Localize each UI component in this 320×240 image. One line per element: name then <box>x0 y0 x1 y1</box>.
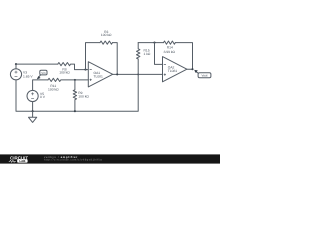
svg-text:1 kΩ: 1 kΩ <box>144 52 151 56</box>
resistor R11 <box>48 78 61 81</box>
op-amp OA2 <box>163 57 187 82</box>
wire V3 bottom and ground rail <box>16 74 138 111</box>
wire R15 top to R14 rail <box>138 42 163 44</box>
resistor R3 <box>100 41 113 44</box>
ground <box>32 111 34 117</box>
voltage source V5 <box>27 90 38 101</box>
wire R14 right down to OA2 output <box>175 43 192 70</box>
svg-text:100 kΩ: 100 kΩ <box>101 33 112 37</box>
svg-text:Vout: Vout <box>201 74 207 78</box>
resistor R15 vertical <box>137 43 140 75</box>
voltage source V3 <box>10 69 21 80</box>
svg-text:100 kΩ: 100 kΩ <box>78 95 89 99</box>
node OA1 output / R3 <box>116 73 118 75</box>
wire V3 top stub <box>15 64 17 69</box>
svg-text:8.99 kΩ: 8.99 kΩ <box>164 50 176 54</box>
svg-text:TL081: TL081 <box>168 69 178 73</box>
op-amp OA1 <box>88 62 112 87</box>
svg-text:1.65 V: 1.65 V <box>23 74 33 78</box>
wire OA1 output rail <box>113 73 163 75</box>
Vout flag <box>195 71 198 73</box>
svg-text:Vin: Vin <box>41 71 46 75</box>
node R3 feedback to minus input <box>84 69 86 71</box>
wire OA2 output <box>187 68 193 70</box>
svg-text:R14: R14 <box>167 46 173 50</box>
node OA2 output <box>191 68 193 70</box>
resistor R8 <box>58 62 71 65</box>
svg-text:http://circuitlab.com/c/v68qv8: http://circuitlab.com/c/v68qv81b95a <box>44 159 102 162</box>
wire R3 right vertical to output <box>113 43 118 75</box>
svg-text:100 kΩ: 100 kΩ <box>48 87 59 91</box>
logo LAB tag <box>17 159 27 162</box>
node R9 bottom <box>74 110 76 112</box>
wire V5 bottom stub <box>32 102 34 112</box>
node V5 ground junction <box>32 110 34 112</box>
svg-text:100 kΩ: 100 kΩ <box>59 70 70 74</box>
node R15 bottom junction <box>137 73 139 75</box>
wire top rail to R8 <box>16 63 58 65</box>
wire OA2 minus feedback branch <box>155 43 163 65</box>
Vin flag <box>38 75 40 78</box>
resistor R14 <box>164 41 176 44</box>
labels <box>23 30 208 99</box>
svg-text:0 V: 0 V <box>40 95 46 99</box>
wire R8 right corner down to minus rail <box>71 64 88 70</box>
logo zigzag <box>9 160 16 162</box>
svg-text:LAB: LAB <box>19 159 26 163</box>
wire R11 to plus input <box>61 79 88 81</box>
wire R3 feedback left vertical <box>86 43 101 70</box>
node R14 left / OA2 feedback <box>153 42 155 44</box>
resistor R9 vertical <box>73 80 76 111</box>
node R9 top <box>74 79 76 81</box>
svg-text:TL081: TL081 <box>94 74 104 78</box>
wire V5 top to Vin node and R11 <box>33 80 48 91</box>
footer bar <box>0 154 220 163</box>
logo CIRCUITLAB <box>10 156 28 161</box>
node top rail junction <box>15 63 17 65</box>
